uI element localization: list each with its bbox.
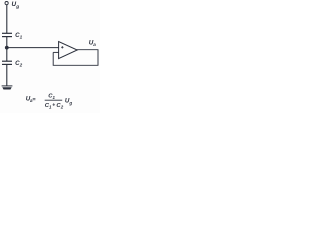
wire: [6, 37, 8, 62]
svg-text:g: g: [68, 100, 72, 105]
wire: [6, 64, 8, 86]
svg-text:1: 1: [20, 35, 23, 40]
wire inverting stub: [53, 51, 58, 53]
node junction: [5, 46, 9, 50]
svg-text:a: a: [93, 42, 96, 47]
wire: [6, 5, 8, 33]
svg-text:+: +: [52, 103, 55, 109]
ground: [2, 86, 13, 90]
capacitor C1: [2, 33, 12, 36]
svg-text:g: g: [15, 4, 19, 9]
plus input mark: [61, 46, 63, 48]
wire: [7, 47, 59, 49]
terminal Ug: [5, 1, 8, 4]
formula Ua = C1/(C1+C2) Ug: [26, 93, 73, 109]
svg-text:2: 2: [19, 63, 23, 68]
capacitor C2: [2, 61, 12, 64]
fraction bar: [45, 99, 63, 101]
svg-text:2: 2: [60, 104, 64, 109]
op-amp U1: [59, 42, 78, 59]
wire feedback loop: [53, 50, 98, 66]
